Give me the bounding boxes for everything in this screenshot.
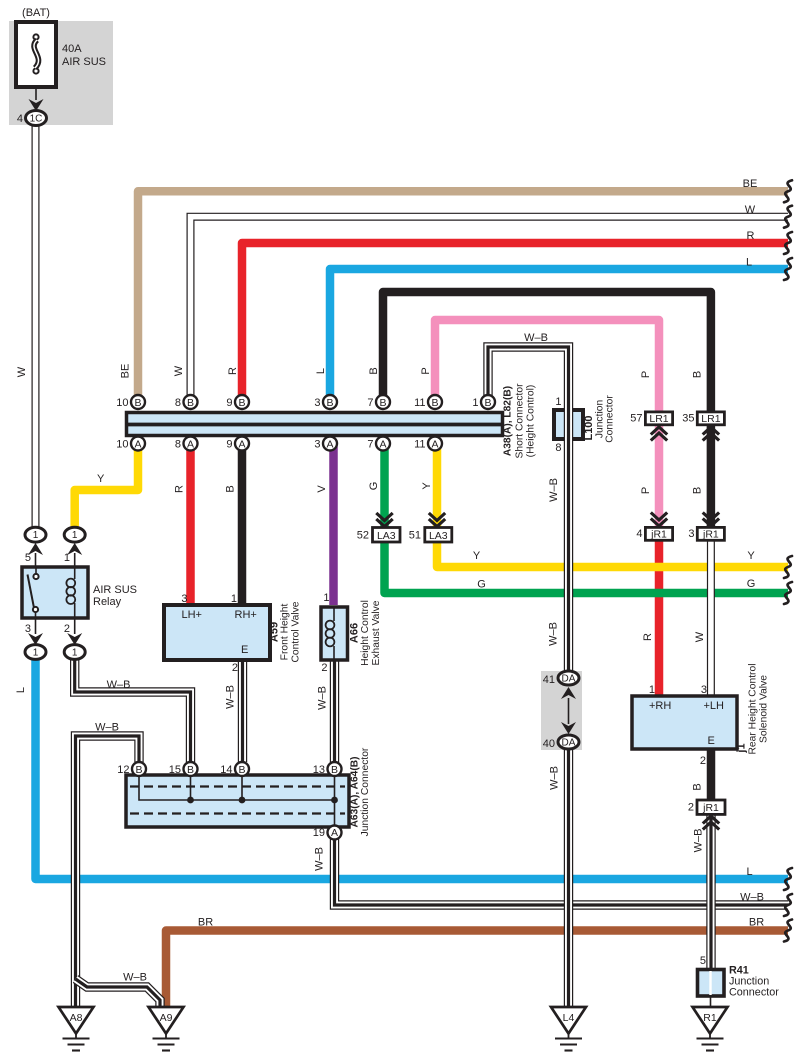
svg-text:LA3: LA3 [377, 530, 396, 542]
svg-text:3: 3 [701, 684, 707, 696]
svg-text:L: L [746, 866, 752, 878]
svg-text:RH+: RH+ [235, 609, 257, 621]
svg-text:W–B: W–B [548, 478, 560, 502]
svg-text:W–B: W–B [123, 972, 147, 984]
svg-text:E: E [708, 735, 715, 747]
svg-text:Junction Connector: Junction Connector [360, 747, 371, 836]
svg-text:W–B: W–B [314, 847, 326, 871]
svg-text:BR: BR [749, 917, 764, 929]
svg-text:LH+: LH+ [182, 609, 203, 621]
svg-text:BR: BR [198, 917, 213, 929]
svg-text:Y: Y [97, 473, 105, 485]
svg-text:1C: 1C [30, 114, 43, 125]
svg-text:A: A [187, 438, 194, 450]
svg-text:A: A [238, 438, 245, 450]
svg-text:1: 1 [323, 592, 329, 604]
svg-text:1: 1 [64, 552, 70, 564]
svg-text:jR1: jR1 [650, 529, 667, 541]
svg-text:jR1: jR1 [702, 802, 719, 814]
svg-text:(BAT): (BAT) [22, 7, 50, 19]
svg-text:1: 1 [72, 530, 78, 541]
svg-text:2: 2 [232, 662, 238, 674]
svg-text:LR1: LR1 [701, 413, 720, 425]
svg-text:W–B: W–B [317, 686, 329, 710]
svg-text:10: 10 [116, 397, 128, 409]
svg-text:+RH: +RH [649, 700, 671, 712]
svg-text:9: 9 [226, 397, 232, 409]
svg-text:AIR SUS: AIR SUS [93, 584, 137, 596]
svg-text:jR1: jR1 [702, 529, 719, 541]
svg-text:B: B [326, 397, 333, 409]
svg-text:1: 1 [33, 648, 39, 659]
svg-text:51: 51 [409, 530, 421, 542]
svg-text:5: 5 [25, 552, 31, 564]
svg-text:A: A [431, 438, 438, 450]
svg-text:DA: DA [562, 674, 576, 685]
svg-text:3: 3 [25, 623, 31, 635]
svg-text:7: 7 [367, 397, 373, 409]
svg-text:R: R [227, 367, 239, 375]
svg-text:W: W [694, 631, 706, 642]
svg-text:B: B [692, 487, 704, 494]
svg-text:R: R [642, 633, 654, 641]
svg-text:B: B [368, 367, 380, 374]
svg-text:2: 2 [688, 802, 694, 814]
svg-text:Control Valve: Control Valve [291, 601, 302, 662]
svg-text:B: B [379, 397, 386, 409]
svg-text:A: A [331, 827, 338, 839]
svg-text:3: 3 [314, 397, 320, 409]
svg-text:40A: 40A [62, 43, 82, 55]
svg-text:52: 52 [357, 530, 369, 542]
svg-text:L: L [15, 687, 27, 693]
svg-text:W–B: W–B [107, 679, 131, 691]
svg-text:19: 19 [313, 827, 325, 839]
svg-text:1: 1 [33, 530, 39, 541]
svg-text:G: G [368, 482, 380, 491]
svg-text:A: A [134, 438, 141, 450]
svg-text:1: 1 [555, 396, 561, 408]
svg-text:A8: A8 [70, 1012, 83, 1024]
svg-text:B: B [225, 485, 237, 492]
svg-text:3: 3 [314, 439, 320, 451]
svg-text:8: 8 [555, 442, 561, 454]
svg-text:W–B: W–B [524, 332, 548, 344]
svg-text:41: 41 [543, 674, 555, 686]
svg-text:9: 9 [226, 439, 232, 451]
svg-text:P: P [640, 371, 652, 378]
svg-text:G: G [747, 578, 756, 590]
svg-text:Y: Y [473, 550, 481, 562]
svg-text:A9: A9 [160, 1012, 173, 1024]
svg-text:B: B [331, 764, 338, 776]
svg-text:Connector: Connector [605, 395, 616, 443]
svg-text:Rear Height Control: Rear Height Control [748, 664, 759, 755]
svg-text:2: 2 [700, 755, 706, 767]
svg-text:+LH: +LH [704, 700, 725, 712]
svg-text:W–B: W–B [225, 685, 237, 709]
svg-text:L: L [315, 368, 327, 374]
svg-text:A: A [326, 438, 333, 450]
svg-text:Short Connector: Short Connector [515, 383, 526, 459]
svg-text:BE: BE [120, 364, 132, 379]
svg-text:V: V [316, 485, 328, 493]
svg-text:15: 15 [169, 764, 181, 776]
svg-text:E: E [241, 644, 248, 656]
svg-text:B: B [484, 397, 491, 409]
svg-text:P: P [640, 487, 652, 494]
svg-text:12: 12 [117, 764, 129, 776]
svg-text:j1: j1 [736, 743, 748, 753]
svg-text:57: 57 [630, 413, 642, 425]
svg-text:B: B [692, 783, 704, 790]
svg-text:A63(A), A64(B): A63(A), A64(B) [350, 757, 361, 828]
svg-text:AIR SUS: AIR SUS [62, 56, 106, 68]
svg-text:B: B [238, 764, 245, 776]
svg-text:G: G [477, 579, 486, 591]
svg-text:A66: A66 [349, 623, 361, 643]
svg-text:LR1: LR1 [649, 413, 668, 425]
svg-text:10: 10 [116, 439, 128, 451]
svg-text:8: 8 [175, 439, 181, 451]
svg-text:14: 14 [220, 764, 232, 776]
svg-text:B: B [238, 397, 245, 409]
svg-text:Height Control: Height Control [360, 600, 371, 666]
svg-text:W–B: W–B [548, 622, 560, 646]
svg-text:4: 4 [17, 113, 23, 125]
svg-text:B: B [187, 397, 194, 409]
svg-text:B: B [187, 764, 194, 776]
svg-text:11: 11 [414, 397, 425, 409]
svg-text:R1: R1 [703, 1012, 717, 1024]
svg-text:2: 2 [321, 662, 327, 674]
svg-text:40: 40 [543, 738, 555, 750]
svg-text:Connector: Connector [729, 987, 779, 999]
svg-text:B: B [431, 397, 438, 409]
svg-text:Relay: Relay [93, 596, 122, 608]
svg-text:W–B: W–B [549, 766, 561, 790]
svg-text:B: B [135, 764, 142, 776]
svg-text:DA: DA [562, 738, 576, 749]
svg-text:3: 3 [688, 528, 694, 540]
svg-text:BE: BE [743, 178, 758, 190]
svg-text:W–B: W–B [740, 892, 764, 904]
svg-text:Y: Y [747, 550, 755, 562]
svg-text:35: 35 [682, 413, 694, 425]
svg-text:1: 1 [231, 593, 237, 605]
svg-text:5: 5 [700, 955, 706, 967]
svg-text:11: 11 [414, 439, 425, 451]
svg-text:1: 1 [472, 397, 478, 409]
svg-text:3: 3 [181, 593, 187, 605]
svg-text:7: 7 [367, 439, 373, 451]
svg-text:W: W [173, 365, 185, 376]
svg-text:(Height Control): (Height Control) [526, 385, 537, 458]
svg-text:Front Height: Front Height [280, 604, 291, 661]
svg-text:8: 8 [175, 397, 181, 409]
svg-text:L: L [746, 257, 752, 269]
svg-text:Y: Y [421, 482, 433, 490]
svg-text:A: A [379, 438, 386, 450]
svg-text:Exhaust Valve: Exhaust Valve [371, 600, 382, 665]
svg-text:B: B [134, 397, 141, 409]
svg-text:1: 1 [72, 648, 78, 659]
svg-text:4: 4 [636, 528, 642, 540]
svg-text:P: P [420, 367, 432, 374]
svg-text:R: R [747, 230, 755, 242]
svg-text:L100: L100 [583, 415, 595, 440]
svg-text:Solenoid Valve: Solenoid Valve [759, 675, 770, 743]
svg-text:A38(A), L82(B): A38(A), L82(B) [503, 386, 514, 456]
svg-text:2: 2 [64, 623, 70, 635]
svg-text:B: B [692, 371, 704, 378]
svg-text:R: R [174, 485, 186, 493]
svg-text:W–B: W–B [693, 829, 705, 853]
svg-text:W–B: W–B [95, 722, 119, 734]
svg-text:LA3: LA3 [429, 530, 448, 542]
svg-text:W: W [16, 366, 28, 377]
svg-text:13: 13 [313, 764, 325, 776]
svg-text:1: 1 [649, 684, 655, 696]
svg-text:L4: L4 [563, 1012, 575, 1024]
svg-text:W: W [745, 204, 756, 216]
